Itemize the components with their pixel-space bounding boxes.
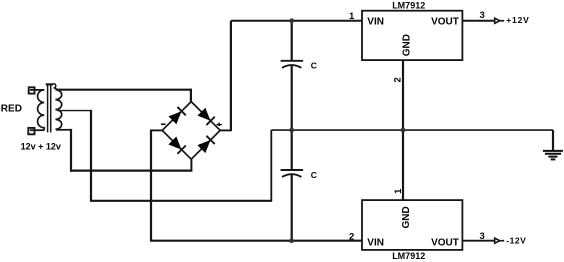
diode D3 bottom-left [168,136,186,154]
op-amp U1 regulator box top [362,11,462,60]
svg-text:VIN: VIN [367,238,384,249]
svg-text:LM7912: LM7912 [392,251,425,261]
svg-text:3: 3 [480,10,485,21]
wire secondary top tap to bridge top [58,89,191,91]
svg-text:1: 1 [349,11,355,22]
wire primary top lead [30,89,44,91]
wire primary bottom lead [30,129,44,131]
svg-text:2: 2 [349,231,354,242]
svg-text:GND: GND [402,34,413,56]
ground symbol [543,151,563,160]
wire center tap down [90,110,92,202]
wire secondary center tap [58,110,92,112]
label plus [217,123,222,127]
port arrow -12V [495,238,500,243]
wire bridge top stub [190,89,192,102]
svg-text:-12V: -12V [506,236,526,246]
terminal top-left square [29,87,35,93]
svg-text:C: C [311,61,317,71]
wire U1 VOUT to port [462,20,494,22]
svg-text:VIN: VIN [367,17,384,28]
bridge rectifier diamond [162,102,220,160]
wire center tap horizontal to ground riser [91,200,271,202]
svg-text:C: C [311,170,317,180]
wire bridge right stub [220,129,231,131]
wire bridge bottom stub [190,159,192,172]
wire top rail [231,20,362,22]
wire secondary bottom tap [56,129,71,131]
node junction mid cap [289,128,294,133]
node junction top cap [289,18,294,23]
svg-text:LM7912: LM7912 [392,1,425,11]
wire GND riser between regulators [402,60,404,200]
svg-text:12v + 12v: 12v + 12v [21,141,61,151]
wire ground drop [552,130,554,151]
svg-text:GND: GND [401,206,412,228]
wire bottom rail [150,240,362,242]
op-amp U2 regulator box bottom [362,200,462,250]
wire bridge left stub [150,129,162,131]
node junction bottom cap [289,238,294,243]
svg-text:1: 1 [393,188,404,194]
terminal bottom-left square [28,128,34,134]
capacitor C2 [281,130,304,241]
wire to bridge bottom [70,170,191,172]
svg-text:VOUT: VOUT [431,238,459,249]
svg-text:2: 2 [392,77,403,82]
svg-text:RED: RED [1,104,22,115]
wire mid ground rail [271,129,553,131]
diode D2 top-right [197,108,215,126]
wire minus vertical [150,130,152,240]
diode D1 top-left [168,107,186,125]
core lines [47,84,49,132]
diode D4 bottom-right [197,136,215,154]
node junction gnd riser [401,128,406,133]
capacitor C1 [281,21,304,130]
wire plus riser [230,21,232,132]
label minus [161,124,166,126]
secondary winding [55,90,61,130]
wire ground riser up to mid rail [270,130,272,202]
primary winding [38,90,45,130]
transformer T1 [28,84,61,134]
wire bottom tap down [70,129,72,172]
port arrow +12V [495,18,500,23]
svg-text:VOUT: VOUT [431,17,459,28]
wire U2 VOUT to port [462,240,494,242]
svg-text:+12V: +12V [506,15,530,25]
core top bar and curl [46,83,53,85]
